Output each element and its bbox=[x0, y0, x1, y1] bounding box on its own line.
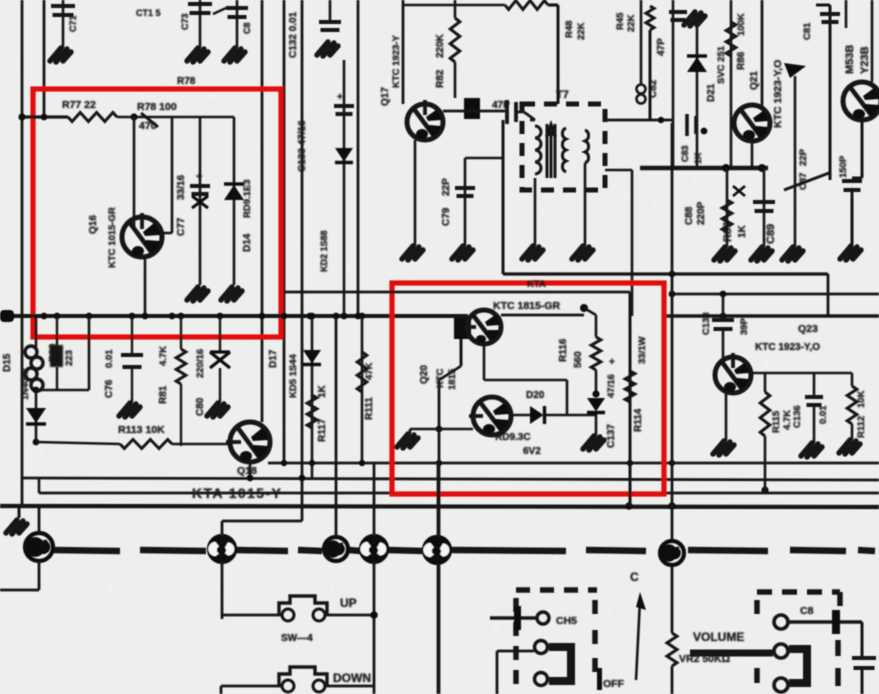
wire R86 rail bbox=[730, 0, 733, 168]
resistor R113 bbox=[120, 440, 172, 449]
transistor Q22 bbox=[843, 82, 879, 120]
wire rail x262 bbox=[261, 0, 264, 422]
wire D15 to D16 bbox=[35, 388, 38, 440]
wire R115 top bbox=[764, 373, 767, 392]
svg-text:R45: R45 bbox=[615, 12, 626, 30]
wire to ground x862 bbox=[851, 190, 854, 246]
svg-text:22P: 22P bbox=[798, 148, 809, 166]
bus segment bbox=[236, 550, 288, 551]
svg-text:R87: R87 bbox=[722, 222, 734, 242]
wire R80 top bbox=[56, 316, 58, 347]
wire trimmer stub bbox=[640, 0, 643, 84]
wire Q20 base/emitter line y429 bbox=[410, 428, 473, 431]
junction near C83 bbox=[701, 128, 708, 135]
connector node 4 bbox=[361, 536, 387, 562]
wire rail x302 bbox=[301, 0, 304, 521]
wire T7 bottom lead left bbox=[534, 178, 537, 190]
wire C136 top bbox=[813, 373, 816, 397]
resistor R117 1K bbox=[307, 395, 317, 428]
wire Q19 base square lead down bbox=[460, 339, 463, 366]
wire y521 bbox=[222, 520, 302, 523]
wire D17/R117 rail bbox=[311, 316, 314, 478]
wire rail x439 bbox=[438, 380, 441, 694]
svg-text:C: C bbox=[630, 570, 639, 584]
ground C76 bbox=[119, 403, 140, 417]
zener diode D19 bbox=[587, 398, 605, 412]
svg-text:C80: C80 bbox=[195, 397, 206, 416]
wire R112 bottom bbox=[851, 424, 854, 440]
svg-text:C89: C89 bbox=[765, 224, 777, 244]
wire R80 bottom bbox=[56, 367, 58, 390]
wire x503 down bbox=[502, 120, 505, 274]
ground D14 bbox=[221, 287, 242, 301]
capacitor C136 bbox=[805, 397, 823, 405]
svg-text:C137: C137 bbox=[606, 424, 617, 448]
wire gnd stub left bbox=[18, 507, 21, 518]
ground R112 bbox=[839, 440, 860, 454]
wire top y5 left bbox=[403, 4, 505, 7]
svg-text:1K: 1K bbox=[737, 224, 748, 238]
bus segment bbox=[52, 550, 120, 551]
wire y463 bbox=[268, 462, 879, 465]
wire x558 to T7 bbox=[557, 5, 560, 104]
diode D16 bbox=[26, 408, 46, 423]
svg-text:KTA 1015-Y: KTA 1015-Y bbox=[192, 485, 282, 501]
wire R82 bottom bbox=[454, 62, 457, 98]
svg-text:0.01: 0.01 bbox=[104, 349, 115, 368]
ground x795 bbox=[782, 247, 803, 261]
svg-text:C79: C79 bbox=[441, 207, 452, 226]
svg-text:D17: D17 bbox=[268, 349, 279, 368]
wire corner x39 bbox=[38, 478, 41, 493]
wire node1 drop bbox=[38, 561, 41, 590]
wire C79 lead bbox=[464, 158, 467, 246]
wire gnd riser box2 bbox=[409, 429, 412, 434]
wire C80 bottom bbox=[219, 368, 221, 403]
wire diagonal to x439 bbox=[439, 366, 461, 380]
junction y168 x726 bbox=[722, 164, 730, 172]
capacitor C77 bbox=[190, 186, 210, 194]
wire T7 bottom lead right bbox=[584, 163, 587, 190]
transistor Q19 bbox=[463, 310, 501, 344]
ground C90 bbox=[751, 247, 772, 261]
zener diode D14 bbox=[224, 185, 244, 200]
svg-text:4.7K: 4.7K bbox=[158, 346, 169, 366]
diode small X near R87 bbox=[733, 186, 745, 196]
diagonal wire near C87 bbox=[784, 173, 829, 190]
svg-text:KTC 1923-Y: KTC 1923-Y bbox=[391, 35, 402, 88]
svg-text:22K: 22K bbox=[576, 22, 587, 40]
wire to DOWN switch bbox=[221, 685, 282, 688]
resistor R87 1K bbox=[722, 200, 732, 232]
svg-text:47/16: 47/16 bbox=[606, 374, 617, 398]
wire x630 down bbox=[629, 292, 632, 506]
wire pin2 to left drop bbox=[497, 650, 534, 653]
transistor Q16 bbox=[122, 213, 162, 257]
svg-text:KTA: KTA bbox=[527, 279, 546, 290]
wire R116 top bbox=[595, 315, 598, 337]
wire to pin CH5 bbox=[490, 616, 537, 619]
svg-text:47K: 47K bbox=[364, 362, 375, 380]
svg-text:47P: 47P bbox=[656, 38, 667, 56]
svg-text:M53B: M53B bbox=[844, 45, 856, 74]
wire y292 bbox=[284, 291, 630, 294]
svg-text:UP: UP bbox=[340, 596, 357, 610]
pin CH5 bbox=[537, 612, 549, 624]
wire rail x44 top bbox=[43, 0, 46, 117]
ground left of node1 bbox=[6, 520, 27, 534]
wire y590 bbox=[0, 589, 39, 592]
svg-text:C83: C83 bbox=[680, 145, 690, 162]
bus segment bbox=[790, 550, 846, 551]
transistor Q18 bbox=[226, 422, 270, 462]
ground Q23 bbox=[713, 441, 734, 455]
svg-text:KD2 1S88: KD2 1S88 bbox=[319, 230, 329, 272]
wire tick near C73 bbox=[213, 8, 226, 14]
junction x36 y390 bbox=[33, 387, 40, 394]
ground in box2 bbox=[397, 434, 418, 448]
diode D20 bbox=[530, 406, 544, 424]
ground T7 left lead bbox=[522, 246, 543, 260]
wire y158 C79 top bbox=[465, 157, 503, 160]
wire C136 bottom bbox=[813, 405, 816, 443]
wire T7 left entry bbox=[524, 112, 535, 120]
svg-text:22P: 22P bbox=[441, 178, 452, 196]
wire rail x672 bbox=[671, 123, 674, 540]
wire VR2 bottom bbox=[671, 666, 674, 694]
wire node4 riser bbox=[373, 463, 376, 536]
wire C90 rail bbox=[763, 168, 766, 247]
svg-text:R112: R112 bbox=[856, 416, 867, 438]
capacitor C71 bbox=[51, 6, 75, 15]
pin 2 right box bbox=[774, 644, 788, 658]
transistor Q20 bbox=[469, 397, 511, 435]
capacitor 47P top right bbox=[669, 12, 687, 20]
capacitor C90 bbox=[753, 202, 775, 211]
resistor R86 100K bbox=[726, 22, 736, 56]
svg-text:R117: R117 bbox=[317, 418, 328, 442]
svg-text:C81: C81 bbox=[802, 22, 813, 40]
svg-text:R111: R111 bbox=[364, 397, 375, 420]
bus segment bbox=[348, 550, 361, 551]
junction x374 y615 bbox=[370, 611, 378, 619]
wire R112 top bbox=[851, 373, 854, 386]
wire Q22 top bbox=[871, 0, 874, 82]
wire Q17 collector to coupling cap bbox=[443, 110, 505, 113]
resistor R81 4.7K bbox=[176, 349, 186, 384]
svg-text:Q21: Q21 bbox=[749, 71, 760, 90]
transistor Q17 bbox=[407, 100, 443, 140]
wire Q17 base rail bbox=[402, 0, 405, 104]
wire Q16 right side up bbox=[162, 232, 172, 235]
resistor R77 bbox=[68, 113, 117, 122]
diode D17 bbox=[303, 350, 321, 364]
wire bus y316 left bbox=[0, 314, 468, 318]
svg-text:39P: 39P bbox=[739, 317, 750, 335]
wire x862 bottom bbox=[861, 668, 864, 694]
connector box right dashed outline bbox=[757, 592, 840, 686]
capacitor C86 bbox=[842, 181, 862, 190]
junction y168 x762 bbox=[758, 164, 766, 172]
svg-text:VOLUME: VOLUME bbox=[693, 630, 744, 644]
svg-text:Q20: Q20 bbox=[419, 365, 430, 384]
wire cap to T7 bbox=[516, 111, 524, 114]
ground under C79 bbox=[452, 246, 473, 260]
VR2 wiper arrow bbox=[636, 600, 640, 680]
junction x36 y442 bbox=[33, 439, 40, 446]
bus segment bbox=[688, 550, 768, 551]
thick C-trace right box bbox=[789, 649, 807, 683]
svg-text:10K: 10K bbox=[856, 390, 867, 408]
wire D19 to ground bbox=[595, 414, 598, 436]
svg-text:C87: C87 bbox=[798, 173, 809, 190]
ground under C74 bbox=[224, 48, 245, 62]
wire C77 rail bbox=[199, 117, 202, 285]
svg-text:R116: R116 bbox=[558, 338, 569, 362]
wire node2 drop bbox=[221, 562, 224, 619]
resistor R115 4.7K bbox=[760, 392, 770, 436]
capacitor bottom right bbox=[852, 658, 876, 668]
transformer T7 dashed box bbox=[522, 104, 605, 190]
junction x44 y117 bbox=[41, 114, 48, 121]
capacitor C132 bbox=[319, 22, 341, 30]
svg-text:1N4002: 1N4002 bbox=[20, 368, 30, 400]
svg-text:D20: D20 bbox=[526, 390, 545, 401]
capacitor C74 bbox=[226, 8, 248, 17]
thick C-trace left box bbox=[549, 647, 571, 681]
svg-text:DOWN: DOWN bbox=[333, 671, 371, 685]
svg-text:C133 47/16: C133 47/16 bbox=[297, 120, 308, 172]
wire D20 out bbox=[546, 414, 596, 417]
svg-text:C136: C136 bbox=[792, 405, 803, 428]
T7 core bars bbox=[546, 124, 549, 178]
connector node 2 bbox=[209, 536, 235, 562]
wire Q23 emitter bbox=[725, 392, 728, 441]
svg-text:RD9.1E3: RD9.1E3 bbox=[242, 179, 253, 218]
svg-text:C8: C8 bbox=[242, 22, 252, 34]
ground R87 bbox=[714, 247, 735, 261]
junction y294 x723 bbox=[720, 291, 727, 298]
ground under C73 bbox=[187, 48, 208, 62]
connector node 3 bbox=[324, 537, 348, 561]
svg-text:C138: C138 bbox=[701, 312, 712, 335]
svg-text:1K: 1K bbox=[317, 384, 328, 398]
junction y294 x672 bbox=[669, 291, 676, 298]
bus segment bbox=[298, 550, 322, 551]
wire node4 drop bbox=[373, 562, 376, 694]
T7 primary coil bbox=[535, 126, 541, 174]
wire y506 thick bbox=[0, 506, 879, 507]
capacitor C133 bbox=[334, 106, 354, 114]
wire x221 drop bbox=[220, 686, 223, 694]
wire node6 drop bbox=[671, 566, 674, 633]
svg-text:220/16: 220/16 bbox=[195, 349, 206, 378]
wire D14 rail bbox=[233, 117, 236, 285]
wire R87 rail bbox=[726, 168, 729, 247]
wire rail x284 bbox=[283, 0, 286, 463]
wire pin1 to right edge bbox=[788, 620, 862, 623]
wire y170 stub bbox=[605, 169, 632, 172]
wire D21 rail bbox=[696, 22, 699, 168]
svg-text:KD5 1S44: KD5 1S44 bbox=[288, 353, 299, 398]
wire Q21 emitter down bbox=[751, 141, 754, 168]
wire C132 lead bbox=[329, 0, 332, 22]
svg-text:C71: C71 bbox=[68, 15, 78, 32]
svg-text:1K: 1K bbox=[693, 152, 703, 164]
wire R113 to Q18 bbox=[172, 443, 230, 446]
wire stub y5 right bbox=[816, 4, 830, 7]
diode KD2 1S88 bbox=[335, 148, 353, 162]
wire C73 lead bbox=[199, 0, 202, 48]
wire Q17 emitter down bbox=[414, 140, 417, 246]
bus segment bbox=[387, 550, 424, 551]
wire Q21 collector rail bbox=[761, 0, 764, 106]
connector node 5 bbox=[424, 537, 450, 563]
svg-text:220P: 220P bbox=[696, 201, 707, 225]
svg-text:+: + bbox=[337, 92, 343, 103]
svg-text:R82: R82 bbox=[435, 69, 446, 88]
junction T7 exit bbox=[658, 117, 664, 123]
capacitor C79 22P bbox=[455, 188, 475, 196]
wire left rail x22 bbox=[21, 0, 24, 505]
wire y493 bbox=[39, 492, 879, 495]
wire x650 down bbox=[649, 30, 652, 120]
switch SW-4 UP body bbox=[279, 596, 327, 614]
svg-text:Y23B: Y23B bbox=[859, 46, 871, 74]
T7 tertiary coil bbox=[585, 130, 589, 163]
wire Q19 collector line bbox=[501, 314, 584, 317]
svg-text:RD9.3C: RD9.3C bbox=[495, 432, 531, 443]
wire y168 thick bbox=[640, 166, 768, 170]
wire DOWN switch right bbox=[325, 685, 374, 688]
ground D19 bbox=[583, 436, 604, 450]
svg-text:+: + bbox=[196, 171, 202, 183]
ground Q17 emitter bbox=[402, 246, 423, 260]
svg-text:R86: R86 bbox=[736, 51, 747, 70]
wire C138 to Q23 bbox=[722, 329, 725, 358]
wire y294 right bbox=[672, 293, 879, 296]
wire y478 bbox=[22, 478, 879, 480]
svg-text:Q23: Q23 bbox=[798, 323, 818, 335]
capacitor C81 bbox=[820, 14, 840, 22]
svg-text:C77: C77 bbox=[176, 217, 187, 236]
wire node5 riser bbox=[437, 463, 440, 537]
svg-text:D15: D15 bbox=[2, 353, 13, 372]
svg-text:KTC 1923-Y,O: KTC 1923-Y,O bbox=[755, 342, 820, 353]
wire C71 lead bbox=[62, 0, 65, 48]
wire x862 down to cap bbox=[861, 622, 864, 656]
svg-text:OFF: OFF bbox=[603, 678, 625, 690]
svg-text:Q17: Q17 bbox=[380, 87, 391, 106]
wire x795 down bbox=[794, 76, 797, 247]
T7 tuning arrow bbox=[545, 120, 557, 136]
svg-text:KTC 1815-GR: KTC 1815-GR bbox=[493, 300, 561, 312]
svg-text:223: 223 bbox=[64, 350, 75, 366]
svg-text:33/16: 33/16 bbox=[176, 175, 187, 200]
svg-text:150P: 150P bbox=[838, 155, 849, 178]
connector box left dashed outline bbox=[516, 590, 597, 694]
svg-text:SVC 251: SVC 251 bbox=[716, 45, 727, 84]
junction bus x723 bbox=[720, 313, 727, 320]
wire x673 down bbox=[672, 0, 675, 168]
pin 2 left box bbox=[535, 641, 548, 654]
diode arrow blob D22 bbox=[784, 63, 806, 78]
bus segment bbox=[140, 550, 206, 551]
svg-text:CH5: CH5 bbox=[556, 615, 577, 627]
svg-text:Q18: Q18 bbox=[237, 465, 257, 477]
wire hook to R116 bbox=[584, 308, 596, 315]
pin 3 left box bbox=[535, 673, 548, 686]
potentiometer VR2 body bbox=[667, 633, 677, 666]
wire KD2 chain x344 bbox=[343, 60, 346, 316]
diode D21 bbox=[687, 57, 707, 72]
wire R115 bottom bbox=[764, 436, 767, 493]
wire R82 top bbox=[454, 0, 457, 18]
bus segment bbox=[858, 550, 875, 551]
wire C74 lead bbox=[236, 0, 239, 48]
svg-text:+: + bbox=[609, 357, 615, 368]
ground under C132 bbox=[317, 42, 338, 56]
wire T7 right exit y120 bbox=[605, 119, 672, 122]
resistor R111 47K bbox=[357, 352, 367, 392]
svg-text:C76: C76 bbox=[104, 379, 115, 398]
svg-text:560: 560 bbox=[573, 351, 584, 368]
pin 1 right box bbox=[774, 615, 788, 629]
svg-text:SW—4: SW—4 bbox=[281, 633, 313, 644]
wire D15 top bbox=[35, 316, 38, 347]
svg-text:R115: R115 bbox=[771, 410, 782, 433]
svg-text:D14: D14 bbox=[242, 233, 253, 252]
wire rail x358 bbox=[357, 0, 360, 316]
wire Q18 emitter down bbox=[249, 462, 252, 478]
transistor Q21 bbox=[734, 105, 770, 141]
wire Q16 base rail bbox=[133, 117, 136, 228]
wire Q23 collector row bbox=[751, 372, 852, 375]
pin 3 right box bbox=[774, 678, 788, 692]
svg-text:R48: R48 bbox=[564, 21, 575, 38]
connector node 1 bbox=[25, 533, 53, 561]
transistor Q23 bbox=[715, 353, 751, 393]
connector node 6 bbox=[660, 541, 684, 565]
resistor R114 33/1W bbox=[625, 371, 635, 402]
resistor R82 220K bbox=[450, 18, 460, 62]
wire top y5 right bbox=[548, 3, 558, 6]
diode D16b X symbol bbox=[210, 352, 230, 368]
T7 secondary coil bbox=[562, 128, 566, 172]
wire Q22 emitter down bbox=[861, 120, 864, 178]
wire node5 drop bbox=[437, 563, 440, 694]
wire y117 bbox=[117, 116, 234, 119]
resistor R85 bbox=[505, 1, 548, 10]
diode D15 bubble chain bbox=[25, 346, 43, 391]
svg-text:100K: 100K bbox=[736, 13, 747, 36]
wire to R113 bbox=[36, 442, 120, 444]
capacitor 47P coupling bbox=[507, 100, 516, 124]
svg-text:6V2: 6V2 bbox=[523, 446, 541, 457]
wire node2 riser bbox=[221, 521, 224, 536]
svg-text:C88: C88 bbox=[684, 206, 695, 225]
svg-text:R78 100: R78 100 bbox=[137, 101, 177, 113]
svg-text:CT1 5: CT1 5 bbox=[136, 8, 161, 18]
svg-text:1815: 1815 bbox=[447, 368, 458, 390]
svg-text:R81: R81 bbox=[158, 385, 169, 404]
svg-text:KTC 1923-Y,O: KTC 1923-Y,O bbox=[772, 60, 784, 128]
svg-text:0.01: 0.01 bbox=[818, 405, 829, 424]
svg-text:220K: 220K bbox=[435, 33, 446, 58]
ground under C71 bbox=[50, 48, 71, 62]
wire bus y316 right bbox=[664, 314, 879, 318]
svg-text:T7: T7 bbox=[556, 89, 569, 101]
